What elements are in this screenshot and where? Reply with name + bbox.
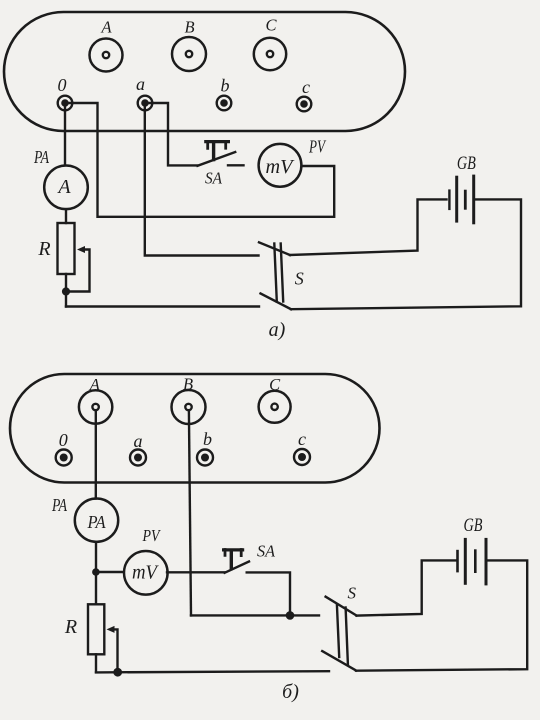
svg-text:A: A bbox=[56, 176, 71, 198]
svg-text:SA: SA bbox=[257, 542, 276, 561]
svg-text:B: B bbox=[183, 375, 193, 394]
svg-text:a: a bbox=[134, 431, 143, 451]
svg-text:GB: GB bbox=[464, 515, 483, 536]
svg-text:a: a bbox=[136, 74, 145, 94]
svg-text:A: A bbox=[89, 375, 101, 394]
svg-text:0: 0 bbox=[59, 430, 68, 450]
svg-text:mV: mV bbox=[266, 156, 296, 178]
svg-text:PV: PV bbox=[142, 526, 162, 545]
svg-text:R: R bbox=[64, 616, 77, 638]
svg-text:A: A bbox=[100, 18, 112, 37]
svg-text:mV: mV bbox=[132, 561, 160, 583]
svg-text:б): б) bbox=[282, 681, 299, 703]
svg-text:b: b bbox=[203, 429, 212, 449]
svg-text:C: C bbox=[269, 375, 281, 394]
svg-text:0: 0 bbox=[58, 75, 67, 95]
svg-text:S: S bbox=[295, 268, 304, 288]
svg-text:PV: PV bbox=[308, 137, 326, 157]
svg-text:PA: PA bbox=[51, 495, 68, 515]
svg-text:S: S bbox=[347, 584, 356, 603]
svg-text:R: R bbox=[37, 238, 50, 260]
svg-text:PA: PA bbox=[33, 147, 50, 167]
svg-text:c: c bbox=[298, 429, 306, 449]
svg-text:b: b bbox=[221, 76, 230, 96]
svg-text:a): a) bbox=[269, 319, 286, 341]
svg-text:SA: SA bbox=[205, 169, 223, 188]
svg-text:C: C bbox=[265, 16, 277, 35]
svg-text:B: B bbox=[184, 18, 194, 37]
svg-text:c: c bbox=[302, 77, 310, 97]
svg-text:PA: PA bbox=[87, 512, 107, 532]
svg-text:GB: GB bbox=[457, 153, 476, 174]
